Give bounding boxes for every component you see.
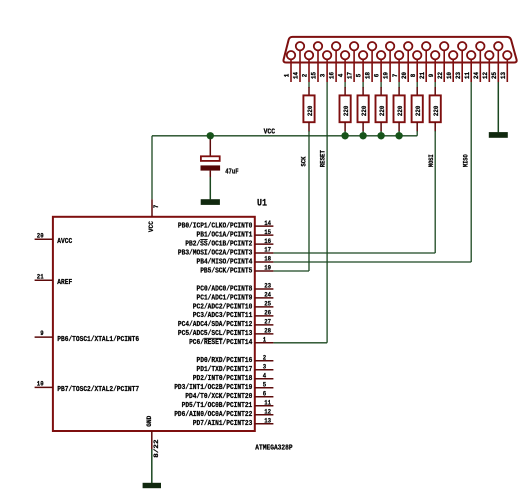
svg-text:PD1/TXD/PCINT17: PD1/TXD/PCINT17 xyxy=(197,366,253,374)
svg-text:14: 14 xyxy=(264,220,271,227)
svg-text:19: 19 xyxy=(264,265,271,272)
svg-text:25: 25 xyxy=(491,72,498,79)
svg-text:PB4/MISO/PCINT4: PB4/MISO/PCINT4 xyxy=(197,258,253,266)
svg-text:PB5/SCK/PCINT5: PB5/SCK/PCINT5 xyxy=(200,267,252,275)
svg-text:15: 15 xyxy=(311,72,318,79)
svg-text:14: 14 xyxy=(293,72,300,79)
svg-text:22: 22 xyxy=(437,72,444,79)
svg-text:PC3/ADC3/PCINT11: PC3/ADC3/PCINT11 xyxy=(193,312,253,320)
svg-text:MOSI: MOSI xyxy=(428,154,436,167)
svg-text:47uF: 47uF xyxy=(225,168,238,176)
svg-text:11: 11 xyxy=(464,72,471,79)
svg-text:PC2/ADC2/PCINT10: PC2/ADC2/PCINT10 xyxy=(193,303,253,311)
svg-text:2: 2 xyxy=(263,355,267,362)
svg-text:PB1/OC1A/PCINT1: PB1/OC1A/PCINT1 xyxy=(197,231,253,239)
svg-text:PB0/ICP1/CLKO/PCINT0: PB0/ICP1/CLKO/PCINT0 xyxy=(178,222,252,230)
svg-text:220: 220 xyxy=(397,106,405,116)
svg-text:18: 18 xyxy=(264,256,271,263)
svg-text:8/22: 8/22 xyxy=(153,439,160,457)
svg-text:PC5/ADC5/SCL/PCINT13: PC5/ADC5/SCL/PCINT13 xyxy=(178,330,252,338)
svg-text:5: 5 xyxy=(263,381,267,388)
svg-text:4: 4 xyxy=(263,373,267,380)
svg-text:18: 18 xyxy=(365,72,372,79)
svg-text:4: 4 xyxy=(338,73,345,77)
svg-text:AREF: AREF xyxy=(57,279,72,287)
svg-text:25: 25 xyxy=(264,301,271,308)
svg-text:6: 6 xyxy=(263,390,267,397)
svg-text:ATMEGA328P: ATMEGA328P xyxy=(255,444,292,452)
svg-text:20: 20 xyxy=(401,72,408,79)
svg-text:21: 21 xyxy=(37,273,44,280)
svg-text:AVCC: AVCC xyxy=(57,238,72,246)
svg-text:6: 6 xyxy=(374,73,381,77)
svg-text:MISO: MISO xyxy=(463,154,471,167)
svg-text:27: 27 xyxy=(264,319,271,326)
svg-text:13: 13 xyxy=(500,72,507,79)
svg-text:PD0/RXD/PCINT16: PD0/RXD/PCINT16 xyxy=(197,357,253,365)
svg-text:220: 220 xyxy=(433,106,441,116)
svg-text:220: 220 xyxy=(307,106,315,116)
svg-text:21: 21 xyxy=(419,72,426,79)
svg-text:220: 220 xyxy=(379,106,387,116)
svg-text:PB7/TOSC2/XTAL2/PCINT7: PB7/TOSC2/XTAL2/PCINT7 xyxy=(57,386,139,394)
svg-text:1: 1 xyxy=(263,337,267,344)
svg-text:9: 9 xyxy=(428,73,435,77)
svg-text:VCC: VCC xyxy=(148,221,156,232)
svg-text:PC0/ADC0/PCINT8: PC0/ADC0/PCINT8 xyxy=(197,285,253,293)
svg-text:9: 9 xyxy=(40,330,44,337)
svg-text:8: 8 xyxy=(410,73,417,77)
svg-text:23: 23 xyxy=(455,72,462,79)
svg-text:PB6/TOSC1/XTAL1/PCINT6: PB6/TOSC1/XTAL1/PCINT6 xyxy=(57,336,139,344)
svg-text:VCC: VCC xyxy=(264,129,275,137)
svg-text:3: 3 xyxy=(320,73,327,77)
svg-text:11: 11 xyxy=(264,399,271,406)
svg-text:16: 16 xyxy=(264,238,271,245)
svg-text:24: 24 xyxy=(264,292,271,299)
svg-text:15: 15 xyxy=(264,229,271,236)
svg-text:24: 24 xyxy=(473,72,480,79)
svg-text:1: 1 xyxy=(284,73,291,77)
svg-text:U1: U1 xyxy=(257,197,267,209)
svg-text:23: 23 xyxy=(264,283,271,290)
svg-text:PD3/INT1/OC2B/PCINT19: PD3/INT1/OC2B/PCINT19 xyxy=(174,384,252,392)
svg-text:13: 13 xyxy=(264,417,271,424)
svg-text:220: 220 xyxy=(361,106,369,116)
svg-text:220: 220 xyxy=(343,106,351,116)
svg-text:PD2/INT0/PCINT18: PD2/INT0/PCINT18 xyxy=(193,375,253,383)
svg-text:20: 20 xyxy=(37,232,44,239)
svg-text:PD4/T0/XCK/PCINT20: PD4/T0/XCK/PCINT20 xyxy=(185,393,252,401)
svg-text:7: 7 xyxy=(392,73,399,77)
svg-text:2: 2 xyxy=(302,73,309,77)
svg-text:17: 17 xyxy=(264,247,271,254)
svg-text:17: 17 xyxy=(347,72,354,79)
svg-text:16: 16 xyxy=(329,72,336,79)
svg-text:12: 12 xyxy=(264,408,271,415)
svg-text:RESET: RESET xyxy=(319,150,327,167)
svg-text:PB2/SS/OC1B/PCINT2: PB2/SS/OC1B/PCINT2 xyxy=(185,240,252,248)
svg-text:12: 12 xyxy=(482,72,489,79)
svg-text:19: 19 xyxy=(383,72,390,79)
svg-text:SCK: SCK xyxy=(300,156,308,167)
svg-text:PC6/RESET/PCINT14: PC6/RESET/PCINT14 xyxy=(189,339,252,347)
svg-text:3: 3 xyxy=(263,364,267,371)
svg-text:10: 10 xyxy=(446,72,453,79)
svg-text:220: 220 xyxy=(415,106,423,116)
svg-text:PD6/AIN0/OC0A/PCINT22: PD6/AIN0/OC0A/PCINT22 xyxy=(174,411,252,419)
svg-text:5: 5 xyxy=(356,73,363,77)
svg-text:PD5/T1/OC0B/PCINT21: PD5/T1/OC0B/PCINT21 xyxy=(182,402,253,410)
svg-text:GND: GND xyxy=(146,416,154,427)
svg-text:PC4/ADC4/SDA/PCINT12: PC4/ADC4/SDA/PCINT12 xyxy=(178,321,252,329)
svg-text:26: 26 xyxy=(264,310,271,317)
svg-text:28: 28 xyxy=(264,328,271,335)
svg-text:PC1/ADC1/PCINT9: PC1/ADC1/PCINT9 xyxy=(197,294,253,302)
svg-text:PD7/AIN1/PCINT23: PD7/AIN1/PCINT23 xyxy=(193,420,253,428)
svg-text:PB3/MOSI/OC2A/PCINT3: PB3/MOSI/OC2A/PCINT3 xyxy=(178,249,252,257)
svg-text:10: 10 xyxy=(37,380,44,387)
svg-text:7: 7 xyxy=(153,204,160,208)
